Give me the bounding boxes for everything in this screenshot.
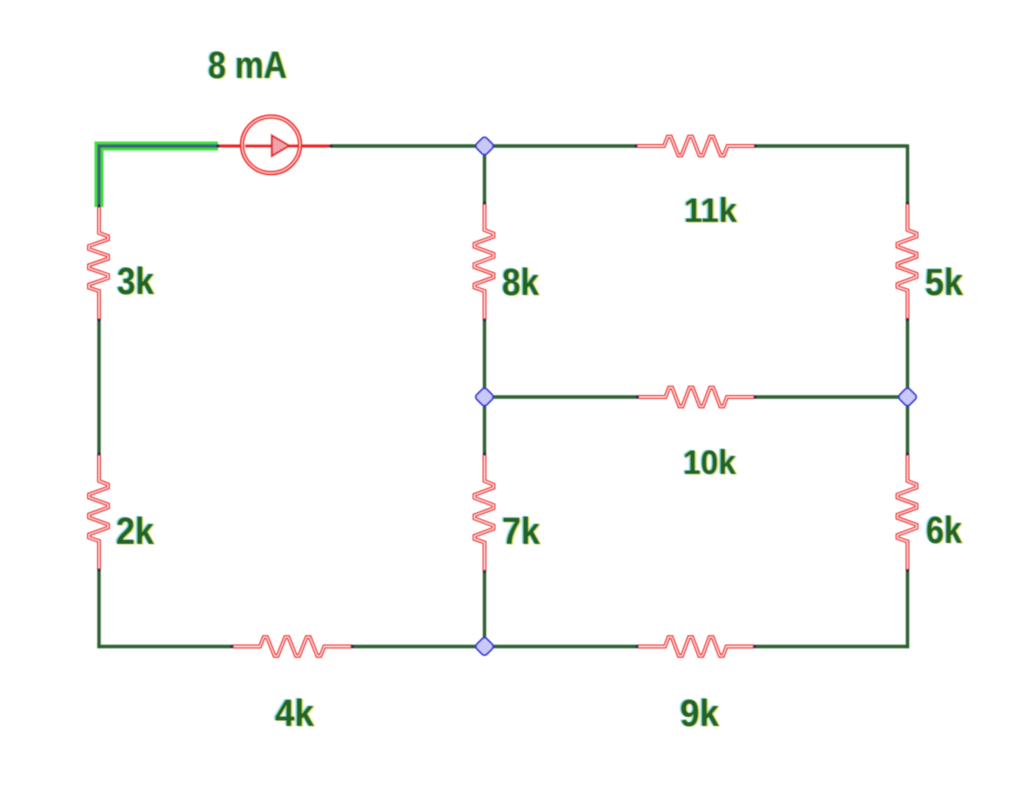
svg-text:5k: 5k: [925, 262, 964, 304]
svg-text:8k: 8k: [502, 262, 540, 304]
svg-text:4k: 4k: [275, 693, 315, 735]
svg-text:2k: 2k: [116, 511, 155, 553]
svg-text:6k: 6k: [926, 510, 963, 552]
svg-text:9k: 9k: [680, 693, 720, 735]
svg-text:3k: 3k: [117, 261, 155, 303]
svg-text:10k: 10k: [683, 444, 737, 482]
svg-text:11k: 11k: [684, 192, 738, 230]
svg-text:8 mA: 8 mA: [208, 45, 287, 87]
svg-text:7k: 7k: [502, 511, 541, 553]
